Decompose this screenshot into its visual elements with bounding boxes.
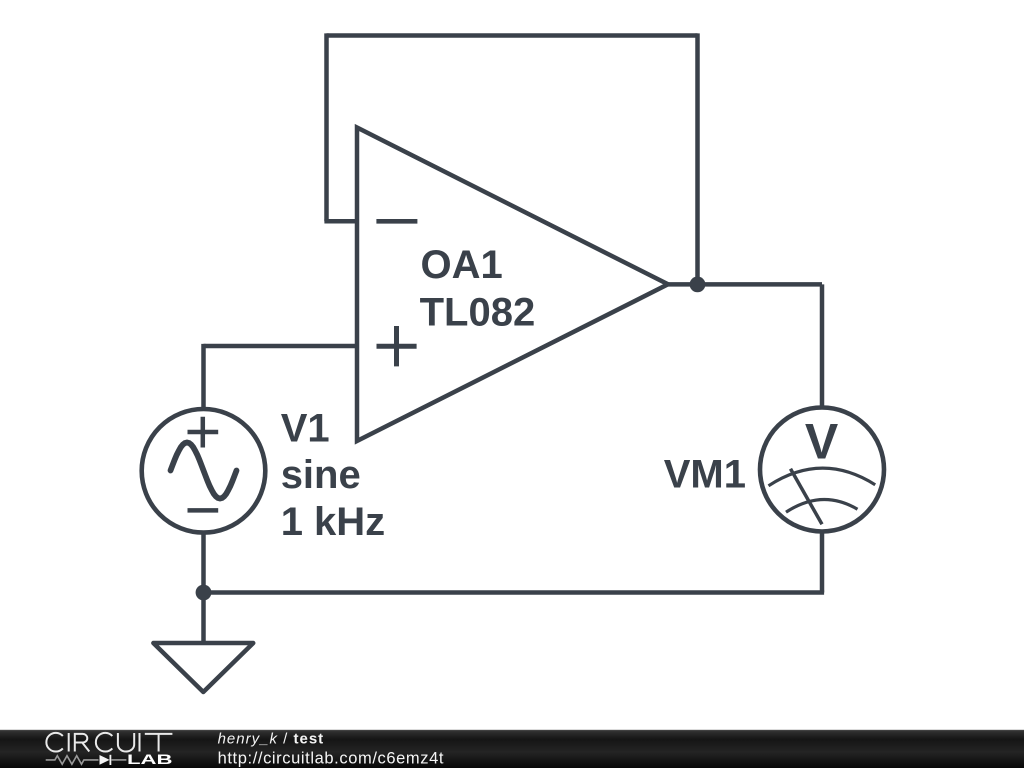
svg-text:sine: sine (281, 453, 361, 497)
logo CIRCUIT lettering (46, 733, 172, 752)
ground symbol (153, 643, 253, 692)
V1 minus symbol (188, 508, 219, 513)
svg-text:http://circuitlab.com/c6emz4t: http://circuitlab.com/c6emz4t (218, 750, 444, 768)
wire V1 top (201, 344, 206, 409)
footer bar (0, 730, 1024, 768)
wire bottom horizontal (204, 590, 825, 595)
wire output down to voltmeter (820, 284, 825, 407)
node ground junction (196, 585, 212, 601)
voltmeter upper arc (769, 468, 876, 486)
logo diode (112, 759, 127, 761)
wire V1 bottom (201, 533, 206, 593)
svg-text:LAB: LAB (127, 752, 173, 767)
voltage source V1 circle (142, 409, 266, 533)
V1 sine wave (171, 443, 237, 499)
node output junction (690, 277, 706, 293)
wire feedback left vertical (324, 33, 329, 221)
op-amp plus input symbol (377, 326, 417, 366)
wire to ground (201, 593, 206, 644)
svg-text:VM1: VM1 (664, 453, 746, 497)
wire feedback top (327, 33, 698, 38)
voltmeter needle (791, 469, 823, 525)
wire output (668, 282, 822, 287)
svg-text:henry_k / test: henry_k / test (218, 731, 325, 748)
wire voltmeter bottom (820, 533, 825, 593)
svg-text:OA1: OA1 (421, 243, 503, 287)
voltmeter lower arc (786, 499, 858, 512)
wire stub to inverting input (324, 219, 357, 224)
wire noninverting input (204, 344, 358, 349)
voltmeter VM1 circle (760, 408, 884, 532)
svg-text:V: V (805, 414, 839, 470)
svg-text:TL082: TL082 (420, 291, 536, 335)
op-amp OA1 triangle (357, 128, 668, 442)
svg-text:1 kHz: 1 kHz (281, 500, 386, 544)
logo resistor zigzag (46, 756, 99, 765)
V1 plus symbol (188, 417, 219, 448)
svg-text:V1: V1 (281, 406, 330, 450)
op-amp minus input symbol (376, 219, 417, 224)
wire feedback right vertical (695, 33, 700, 284)
